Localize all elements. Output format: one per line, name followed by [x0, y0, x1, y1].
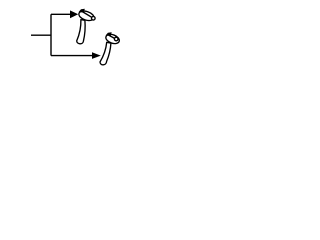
screw 1 head rim — [78, 9, 95, 22]
screw 2 head rim — [105, 33, 121, 46]
wire top branch — [51, 13, 71, 15]
screw 2 slot flag — [106, 32, 112, 36]
arrowhead to screw 1 — [70, 10, 78, 18]
screw 2 slot line — [109, 36, 115, 39]
wire vertical bus — [50, 14, 52, 55]
screw 1 slot flag — [79, 9, 85, 13]
screw 1 slot line — [83, 12, 93, 18]
wire left stub — [31, 34, 51, 36]
arrowhead to screw 2 — [92, 52, 101, 59]
wire bottom branch — [51, 55, 92, 57]
screw 2 slot knob — [114, 37, 118, 41]
screw 1 slot knob — [92, 17, 96, 21]
callout drawing: two adjustment screws pointed to by arrows — [0, 0, 150, 76]
screw 2 shaft — [100, 42, 111, 65]
screw 1 shaft — [77, 20, 85, 44]
